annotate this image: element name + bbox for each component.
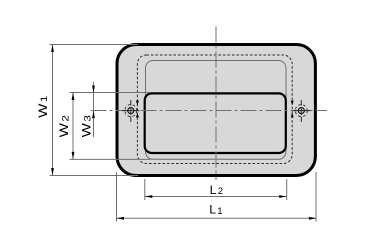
extension line W1 bottom [50, 175, 139, 177]
extension line W2 bottom [70, 158, 151, 160]
extension line W1 top [50, 44, 139, 46]
recess rim thin outline [146, 61, 287, 160]
extension line L2 right [286, 179, 288, 200]
right screw hole [291, 100, 311, 122]
extension line W2/W3 top [70, 92, 151, 94]
extension line L1 left [116, 172, 118, 222]
centerline vertical [215, 25, 217, 180]
dimension line L2 [145, 196, 287, 198]
dimension line W3 [93, 82, 95, 137]
extension line L1 right [315, 172, 317, 222]
centerline horizontal [89, 110, 327, 112]
svg-text:L1: L1 [209, 203, 222, 217]
dimension line W1 [52, 45, 54, 176]
svg-text:W2: W2 [57, 115, 72, 137]
extension line L2 left [144, 179, 146, 200]
left screw hole [122, 100, 140, 122]
svg-text:W3: W3 [79, 115, 94, 137]
dimension line W2 [72, 93, 74, 160]
hidden cutout dashed outline [137, 55, 292, 164]
dimension line L1 [117, 217, 317, 219]
svg-text:W1: W1 [35, 96, 50, 118]
part body outer outline [117, 45, 315, 176]
pocket thick outline [145, 93, 286, 153]
svg-text:L2: L2 [210, 183, 223, 197]
